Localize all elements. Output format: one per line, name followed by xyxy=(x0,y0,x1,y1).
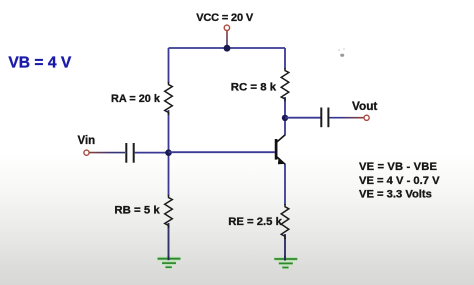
value label RC = 8 k xyxy=(231,82,277,94)
wire: input capacitor to base node xyxy=(135,152,169,154)
svg-text:RC = 8 k: RC = 8 k xyxy=(231,82,277,94)
value label RE = 2.5 k xyxy=(228,216,282,228)
cursor smudge artifact xyxy=(338,48,345,57)
label Vout xyxy=(352,99,377,113)
terminal VCC (red circle) xyxy=(224,25,229,30)
svg-text:RE = 2.5 k: RE = 2.5 k xyxy=(228,216,282,228)
svg-text:VCC = 20 V: VCC = 20 V xyxy=(196,12,254,24)
wire: output capacitor to Vout xyxy=(329,117,363,119)
svg-text:VE = VB - VBE: VE = VB - VBE xyxy=(359,161,437,173)
resistor RC xyxy=(281,68,289,102)
resistor RE xyxy=(281,204,289,239)
ground (right) xyxy=(274,256,297,268)
svg-text:Vout: Vout xyxy=(352,99,377,113)
node: collector junction dot xyxy=(282,115,288,121)
wire: left branch vertical (RA/RB column) xyxy=(168,48,170,260)
annotation line VE = VB - VBE xyxy=(359,161,437,173)
wire: VCC terminal stub xyxy=(226,31,228,49)
wire: base node to transistor base xyxy=(169,151,275,153)
svg-text:VB = 4 V: VB = 4 V xyxy=(8,54,71,71)
transistor Q1 (NPN) xyxy=(276,135,285,164)
value label VCC = 20 V xyxy=(196,12,254,24)
value label RB = 5 k xyxy=(114,205,160,217)
svg-text:VE = 3.3 Volts: VE = 3.3 Volts xyxy=(359,189,432,201)
wire: right branch vertical (RC/RE column) xyxy=(284,48,286,261)
svg-text:RB = 5 k: RB = 5 k xyxy=(114,205,160,217)
wire: VCC top rail (horizontal) xyxy=(169,47,286,49)
value label RA = 20 k xyxy=(111,93,161,105)
wire: collector node to output capacitor xyxy=(285,117,321,119)
capacitor C1 (input coupling) xyxy=(126,143,133,163)
annotation line VE = 3.3 Volts xyxy=(359,189,432,201)
resistor RA xyxy=(165,82,173,115)
terminal Vin (red circle) xyxy=(84,150,89,155)
svg-text:VE = 4 V - 0.7 V: VE = 4 V - 0.7 V xyxy=(359,175,440,187)
svg-text:RA = 20 k: RA = 20 k xyxy=(111,93,161,105)
node: base junction dot xyxy=(165,149,172,156)
capacitor C2 (output coupling) xyxy=(321,108,328,128)
label Vin xyxy=(78,135,96,147)
annotation line VE = 4 V - 0.7 V xyxy=(359,175,440,187)
svg-text:Vin: Vin xyxy=(78,135,96,147)
label VB = 4 V xyxy=(8,54,71,71)
wire: Vin to input capacitor xyxy=(90,152,126,154)
resistor RB xyxy=(165,195,173,228)
node: VCC junction dot xyxy=(224,45,231,52)
ground (left) xyxy=(158,256,181,268)
terminal Vout (red circle) xyxy=(364,115,369,120)
